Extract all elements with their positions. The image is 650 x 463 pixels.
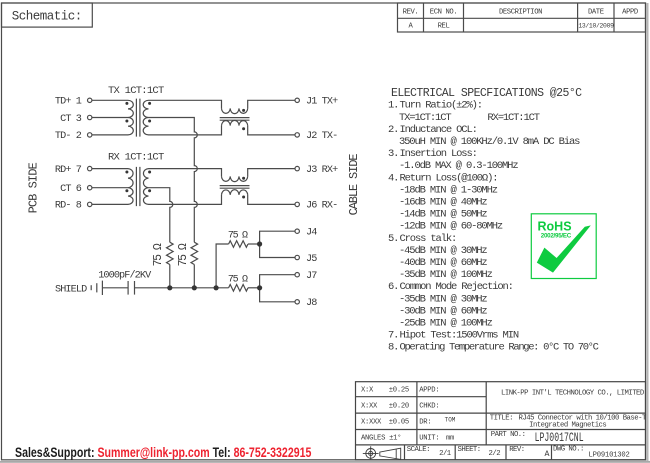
- svg-text:CHKD:: CHKD:: [419, 402, 439, 410]
- svg-text:DATE: DATE: [588, 8, 604, 16]
- capacitor C1 plate 1: [96, 283, 98, 292]
- junction dot R2/bus: [192, 285, 197, 290]
- wire T2 secondary top to choke L2: [149, 169, 222, 177]
- svg-text:Inductance OCL:: Inductance OCL:: [400, 124, 477, 136]
- svg-text:2002/95/EC: 2002/95/EC: [541, 233, 572, 240]
- sales and support contact line: [15, 445, 311, 459]
- wire TD-2 to T1 primary bottom: [92, 134, 128, 136]
- svg-text:APPD: APPD: [622, 8, 638, 16]
- schematic title box: [2, 3, 93, 27]
- transformer T2 primary winding: [128, 169, 133, 205]
- svg-text:CT 6: CT 6: [60, 184, 82, 195]
- svg-text:13/10/2009: 13/10/2009: [578, 22, 614, 29]
- svg-text:-40dB MIN @ 60MHz: -40dB MIN @ 60MHz: [399, 257, 487, 269]
- svg-text:TITLE:: TITLE:: [490, 415, 513, 423]
- title block row line full 1: [356, 412, 646, 414]
- svg-text:2.: 2.: [388, 124, 398, 136]
- wire R2 to ground bus: [193, 265, 195, 288]
- ground bus wire from capacitor to R4: [135, 287, 229, 289]
- terminal J2 circle: [295, 133, 299, 137]
- svg-text:J4: J4: [306, 228, 317, 239]
- svg-text:TD- 2: TD- 2: [55, 131, 82, 142]
- RoHS checkmark: [537, 225, 591, 272]
- title block row line full 3: [356, 444, 646, 446]
- pin CT 3 terminal circle: [88, 115, 92, 119]
- wire node to J8: [260, 288, 295, 302]
- svg-text:DR:: DR:: [419, 419, 431, 427]
- svg-text:Integrated Magnetics: Integrated Magnetics: [529, 422, 606, 430]
- wire node to J7: [260, 275, 295, 288]
- terminal J3 circle: [295, 166, 299, 170]
- svg-text:Hipot Test:1500Vrms MIN: Hipot Test:1500Vrms MIN: [400, 330, 519, 342]
- T2 primary dot bottom: [125, 189, 128, 192]
- svg-text:-25dB MIN @ 100MHz: -25dB MIN @ 100MHz: [399, 318, 493, 330]
- svg-text:RX 1CT:1CT: RX 1CT:1CT: [108, 151, 164, 163]
- svg-text:-18dB MIN @ 1-30MHz: -18dB MIN @ 1-30MHz: [399, 184, 498, 196]
- svg-text:-35dB MIN @ 30MHz: -35dB MIN @ 30MHz: [399, 293, 487, 305]
- svg-text:DWG NO.:: DWG NO.:: [553, 445, 584, 453]
- svg-text:X:X: X:X: [361, 387, 374, 395]
- svg-text:APPD:: APPD:: [419, 387, 439, 395]
- shield terminal stub: [90, 285, 92, 290]
- svg-text:J3 RX+: J3 RX+: [306, 165, 338, 176]
- svg-text:UNIT:: UNIT:: [419, 435, 439, 443]
- svg-text:TOM: TOM: [445, 417, 456, 424]
- wire choke L1 top to J1: [248, 100, 295, 108]
- svg-text:A: A: [409, 23, 414, 31]
- pin CT 6 terminal circle: [88, 186, 92, 190]
- svg-text:J6 RX-: J6 RX-: [306, 201, 337, 212]
- transformer T2 secondary winding: [143, 169, 148, 205]
- terminal J5 circle: [295, 255, 299, 259]
- svg-text:2/2: 2/2: [489, 450, 501, 458]
- svg-text:TX 1CT:1CT: TX 1CT:1CT: [108, 85, 164, 97]
- terminal J6 circle: [295, 202, 299, 206]
- svg-text:SCALE:: SCALE:: [407, 446, 430, 454]
- resistor R4 75ohm (horizontal, lower): [229, 285, 248, 292]
- svg-text:-35dB MIN @ 100MHz: -35dB MIN @ 100MHz: [399, 269, 493, 281]
- svg-text:75 Ω: 75 Ω: [228, 274, 248, 285]
- svg-text:ECN NO.: ECN NO.: [430, 8, 457, 16]
- svg-text:PCB SIDE: PCB SIDE: [26, 163, 40, 214]
- page edge shadow right: [646, 3, 648, 461]
- svg-text:J5: J5: [306, 254, 317, 265]
- svg-text:Turn Ratio(±2%):: Turn Ratio(±2%):: [400, 100, 482, 112]
- svg-text:J8: J8: [306, 298, 317, 309]
- transformer T1 primary winding: [128, 100, 133, 135]
- svg-text:J7: J7: [306, 271, 317, 282]
- svg-text:REV:: REV:: [509, 446, 524, 454]
- junction dot branch/bus: [214, 285, 219, 290]
- svg-text:X:XX: X:XX: [361, 402, 378, 410]
- choke L1 core: [220, 118, 250, 121]
- svg-text:75 Ω: 75 Ω: [152, 243, 165, 266]
- wire CT6 to T2 primary center tap: [92, 187, 128, 189]
- transformer T1 secondary winding: [143, 100, 148, 135]
- pin RD+ 7 terminal circle: [88, 166, 92, 170]
- T2 primary dot top: [125, 171, 128, 174]
- svg-text:±0.20: ±0.20: [389, 402, 409, 410]
- wire node to J4: [260, 231, 295, 244]
- pin TD+ 1 terminal circle: [88, 98, 92, 102]
- svg-text:A: A: [545, 450, 550, 459]
- title block outline: [356, 382, 646, 460]
- svg-text:±0.05: ±0.05: [389, 419, 409, 427]
- transformer T2 core: [136, 167, 140, 206]
- svg-text:TD+ 1: TD+ 1: [55, 97, 82, 108]
- wire CT3 to T1 primary center tap: [92, 117, 128, 119]
- transformer T1 core: [136, 99, 140, 137]
- svg-text:X:XXX: X:XXX: [361, 419, 382, 427]
- revision table outline: [398, 3, 646, 32]
- capacitor C2 1000pF/2KV plate 1: [127, 281, 129, 295]
- svg-text:Cross talk:: Cross talk:: [400, 233, 457, 245]
- title block column line 2: [485, 382, 487, 445]
- choke L1 dot bottom: [242, 127, 245, 130]
- svg-text:ANGLES ±1°: ANGLES ±1°: [361, 434, 401, 443]
- svg-text:RD+ 7: RD+ 7: [55, 165, 82, 176]
- T1 primary dot top: [125, 102, 128, 105]
- svg-text:PART NO.:: PART NO.:: [491, 431, 526, 439]
- svg-text:350uH MIN @ 100KHz/0.1V 8mA DC: 350uH MIN @ 100KHz/0.1V 8mA DC Bias: [399, 136, 580, 148]
- wire R4 to J7/J8 node: [248, 287, 260, 289]
- svg-text:J2 TX-: J2 TX-: [306, 131, 337, 142]
- T1 secondary dot bottom: [148, 120, 151, 123]
- wire T1 secondary bottom to choke L1: [149, 126, 222, 135]
- T1 primary dot bottom: [125, 120, 128, 123]
- wire T1 secondary top to choke L1: [149, 100, 222, 108]
- wire TD+1 to T1 primary top: [92, 99, 128, 101]
- wire choke L2 top to J3: [248, 169, 295, 177]
- title block row line tolerances 1: [356, 396, 487, 398]
- svg-text:RX=1CT:1CT: RX=1CT:1CT: [487, 112, 539, 124]
- choke L2 dot top: [242, 177, 245, 180]
- svg-text:LINK-PP INT'L TECHNOLOGY CO.,: LINK-PP INT'L TECHNOLOGY CO., LIMITED: [501, 389, 645, 397]
- branch wire up to R3: [216, 244, 229, 288]
- junction dot J4/J5 node: [257, 241, 262, 246]
- svg-text:REV.: REV.: [403, 8, 419, 16]
- choke L2 core: [220, 186, 250, 189]
- svg-text:6.: 6.: [388, 281, 398, 293]
- choke L1 dot top: [242, 109, 245, 112]
- svg-text:J1 TX+: J1 TX+: [306, 97, 338, 108]
- projection symbol target circle: [366, 449, 376, 459]
- svg-text:RD- 8: RD- 8: [55, 201, 82, 212]
- T2 secondary dot top: [148, 171, 151, 174]
- choke L2 dot bottom: [242, 196, 245, 199]
- svg-text:3.: 3.: [388, 148, 398, 160]
- choke L2 bottom winding: [222, 190, 248, 195]
- svg-text:ELECTRICAL SPECFICATIONS @25°C: ELECTRICAL SPECFICATIONS @25°C: [391, 87, 582, 100]
- projection symbol cone: [380, 448, 401, 459]
- wire node to J5: [260, 244, 295, 258]
- svg-text:75 Ω: 75 Ω: [177, 243, 190, 266]
- svg-text:-45dB MIN @ 30MHz: -45dB MIN @ 30MHz: [399, 245, 487, 257]
- svg-text:-14dB MIN @ 50MHz: -14dB MIN @ 50MHz: [399, 209, 487, 221]
- wire RD-8 to T2 primary bottom: [92, 203, 128, 205]
- title block row line full 2: [356, 429, 646, 431]
- svg-text:7.: 7.: [388, 330, 398, 342]
- pin TD- 2 terminal circle: [88, 133, 92, 137]
- svg-text:-16dB MIN @ 40MHz: -16dB MIN @ 40MHz: [399, 197, 487, 209]
- wire RD+7 to T2 primary top: [92, 168, 128, 170]
- svg-text:SHEET:: SHEET:: [458, 446, 481, 454]
- resistor R3 75ohm (horizontal, upper): [229, 241, 248, 248]
- svg-text:REL: REL: [438, 23, 450, 31]
- terminal J7 circle: [295, 273, 299, 277]
- svg-text:Schematic:: Schematic:: [12, 9, 82, 23]
- svg-text:1.: 1.: [388, 100, 398, 112]
- title block column line 1: [416, 382, 418, 445]
- svg-text:Insertion Loss:: Insertion Loss:: [400, 148, 477, 160]
- capacitor C2 1000pF/2KV plate 2: [134, 281, 136, 295]
- svg-text:4.: 4.: [388, 172, 398, 184]
- page edge shadow bottom: [0, 461, 650, 463]
- wire R1 to ground bus: [169, 265, 171, 288]
- resistor R1 75ohm (vertical): [167, 242, 174, 264]
- terminal J4 circle: [295, 229, 299, 233]
- svg-text:5.: 5.: [388, 233, 398, 245]
- revision table row line: [398, 17, 646, 19]
- wire choke L2 bottom to J6: [248, 195, 295, 205]
- T1 secondary dot top: [148, 102, 151, 105]
- wire C1 to C2: [102, 287, 128, 289]
- svg-text:Common Mode Rejection:: Common Mode Rejection:: [400, 281, 513, 293]
- terminal J8 circle: [295, 300, 299, 304]
- T2 secondary dot bottom: [148, 189, 151, 192]
- svg-text:Return Loss(@100Ω):: Return Loss(@100Ω):: [400, 172, 498, 184]
- svg-text:-30dB MIN @ 60MHz: -30dB MIN @ 60MHz: [399, 305, 487, 317]
- choke L1 top winding: [222, 108, 248, 113]
- svg-text:±0.25: ±0.25: [389, 387, 409, 395]
- wire R3 to J4/J5 node: [248, 243, 260, 245]
- svg-text:DESCRIPTION: DESCRIPTION: [499, 8, 542, 16]
- svg-text:mm: mm: [446, 435, 454, 443]
- svg-text:8.: 8.: [388, 342, 398, 354]
- svg-text:2/1: 2/1: [439, 450, 452, 458]
- svg-text:LPJ0017CNL: LPJ0017CNL: [535, 431, 584, 445]
- svg-text:CABLE SIDE: CABLE SIDE: [347, 154, 361, 216]
- wire T1 center tap down to R2 (with wire hops): [149, 118, 198, 243]
- wire T2 center tap down to R1 (with wire hop): [149, 188, 173, 243]
- svg-text:RoHS: RoHS: [538, 220, 572, 234]
- svg-text:-12dB MIN @ 60-80MHz: -12dB MIN @ 60-80MHz: [399, 221, 503, 233]
- svg-text:TX=1CT:1CT: TX=1CT:1CT: [399, 112, 451, 124]
- pin RD- 8 terminal circle: [88, 202, 92, 206]
- capacitor C1 plate 2: [101, 281, 103, 295]
- title block bottom row separators: [405, 445, 552, 460]
- terminal J1 circle: [295, 98, 299, 102]
- svg-text:1000pF/2KV: 1000pF/2KV: [98, 269, 152, 281]
- RoHS logo box: [531, 214, 596, 279]
- svg-text:Operating Temperature Range: 0: Operating Temperature Range: 0°C TO 70°C: [400, 342, 599, 354]
- wire choke L1 bottom to J2: [248, 126, 295, 135]
- wire T2 secondary bottom to choke L2: [149, 195, 222, 205]
- svg-text:75 Ω: 75 Ω: [228, 231, 248, 242]
- junction dot R1/bus: [167, 285, 172, 290]
- svg-text:-1.0dB MAX @ 0.3-100MHz: -1.0dB MAX @ 0.3-100MHz: [399, 160, 518, 172]
- resistor R2 75ohm (vertical): [191, 242, 198, 264]
- svg-text:LP09101302: LP09101302: [589, 451, 630, 459]
- choke L2 top winding: [222, 176, 248, 181]
- choke L1 bottom winding: [222, 120, 248, 125]
- svg-text:CT 3: CT 3: [60, 114, 82, 125]
- revision table column lines: [424, 3, 615, 32]
- junction dot J7/J8 node: [257, 285, 262, 290]
- svg-text:SHIELD: SHIELD: [55, 285, 87, 296]
